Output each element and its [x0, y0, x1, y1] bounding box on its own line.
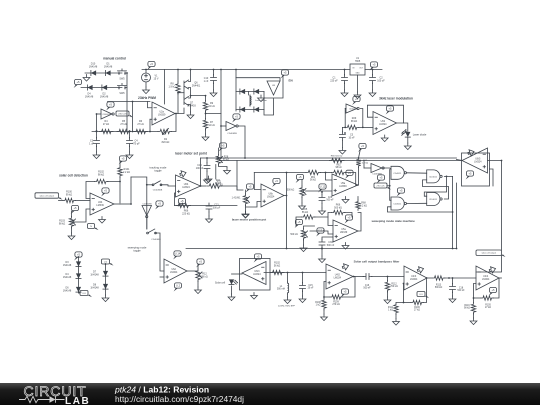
svg-text:56 kΩ: 56 kΩ [274, 264, 281, 267]
svg-text:27 kΩ: 27 kΩ [414, 310, 420, 312]
svg-text:C15: C15 [308, 285, 313, 287]
svg-text:2.2 kΩ: 2.2 kΩ [360, 204, 367, 207]
svg-text:LM324: LM324 [182, 186, 190, 189]
svg-text:15 V: 15 V [154, 77, 159, 80]
svg-text:R108: R108 [315, 302, 321, 304]
svg-text:Solar cell: Solar cell [215, 282, 226, 285]
svg-text:U.9: U.9 [419, 294, 423, 296]
svg-text:laser motor position pot: laser motor position pot [232, 218, 266, 222]
svg-text:1 uF: 1 uF [89, 142, 94, 145]
svg-text:470 pF: 470 pF [132, 142, 140, 145]
svg-text:98 kΩ: 98 kΩ [98, 173, 105, 176]
svg-text:U.2: U.2 [176, 284, 181, 288]
svg-text:CD4069B: CD4069B [227, 133, 237, 135]
svg-text:R105: R105 [485, 305, 491, 307]
svg-text:solar cell output: solar cell output [481, 251, 496, 254]
svg-text:CD4011: CD4011 [393, 173, 402, 175]
svg-text:820 kΩ: 820 kΩ [162, 141, 170, 144]
svg-text:98 kΩ: 98 kΩ [335, 167, 341, 169]
svg-text:+5: +5 [299, 175, 303, 179]
svg-text:R106: R106 [414, 307, 420, 309]
svg-text:23k CLK: 23k CLK [118, 113, 127, 115]
svg-text:1 kΩ: 1 kΩ [388, 310, 393, 312]
svg-text:1N4148: 1N4148 [90, 286, 99, 289]
svg-text:LM: LM [272, 85, 275, 87]
svg-text:+5: +5 [361, 144, 365, 148]
svg-text:+5: +5 [400, 189, 404, 193]
svg-text:99 kΩ: 99 kΩ [66, 193, 73, 196]
svg-text:1N4148: 1N4148 [63, 276, 72, 279]
svg-text:1.9 kΩ: 1.9 kΩ [169, 85, 176, 88]
svg-text:27 kΩ: 27 kΩ [120, 123, 127, 126]
svg-text:CD4011: CD4011 [429, 176, 438, 178]
svg-text:1 nF: 1 nF [204, 80, 209, 83]
svg-text:R112: R112 [391, 284, 397, 286]
svg-text:2.2 kΩ: 2.2 kΩ [362, 163, 369, 165]
svg-text:C26: C26 [328, 197, 333, 199]
svg-text:U.12: U.12 [320, 185, 326, 189]
svg-text:500 nF: 500 nF [327, 244, 335, 247]
svg-text:LM339: LM339 [158, 114, 166, 117]
svg-text:1N4148: 1N4148 [63, 264, 72, 267]
svg-text:LM324: LM324 [170, 271, 178, 274]
svg-text:sweeping mode state machine: sweeping mode state machine [372, 219, 416, 223]
svg-text:LM339: LM339 [96, 204, 104, 207]
svg-text:27 kΩ: 27 kΩ [485, 307, 491, 309]
svg-text:500 nF: 500 nF [363, 288, 371, 290]
svg-text:toggle: toggle [133, 249, 141, 253]
svg-text:IN: IN [353, 68, 355, 70]
svg-text:+5: +5 [348, 216, 352, 220]
svg-text:7805: 7805 [355, 60, 361, 63]
svg-text:2N4401: 2N4401 [192, 84, 201, 87]
svg-text:1 kΩ: 1 kΩ [316, 305, 321, 307]
svg-text:ptk24 / Lab12: Revision: ptk24 / Lab12: Revision [114, 385, 209, 395]
svg-text:500 kΩ: 500 kΩ [435, 287, 443, 289]
svg-text:C18: C18 [459, 288, 464, 290]
svg-text:LM339: LM339 [340, 231, 348, 234]
svg-text:CD4069B: CD4069B [102, 114, 111, 116]
svg-text:CD4069B: CD4069B [142, 204, 152, 206]
svg-text:+5: +5 [150, 62, 154, 66]
svg-text:laser motor set point: laser motor set point [175, 152, 207, 156]
svg-text:500 kΩ: 500 kΩ [290, 234, 298, 236]
svg-text:+5: +5 [284, 71, 288, 75]
svg-text:R113: R113 [436, 285, 442, 287]
svg-text:R116: R116 [464, 305, 470, 307]
svg-text:GND: GND [356, 73, 361, 75]
svg-text:1N4148: 1N4148 [104, 65, 113, 68]
svg-text:LAB: LAB [65, 396, 90, 405]
svg-text:LM339: LM339 [339, 185, 347, 188]
svg-text:98 kΩ: 98 kΩ [59, 222, 66, 225]
svg-text:U.8: U.8 [82, 293, 86, 295]
svg-text:500 µF: 500 µF [213, 206, 221, 209]
svg-text:2.2 kΩ: 2.2 kΩ [123, 171, 130, 174]
svg-text:220 uF: 220 uF [330, 79, 338, 82]
svg-text:+5: +5 [298, 220, 302, 224]
svg-text:LM324: LM324 [379, 123, 387, 126]
svg-text:+5: +5 [104, 189, 108, 193]
svg-text:500 nF: 500 nF [457, 290, 465, 292]
svg-text:R61: R61 [311, 177, 316, 179]
svg-text:U.2: U.2 [104, 261, 108, 263]
svg-text:100 nF: 100 nF [196, 167, 204, 170]
svg-text:L1: L1 [280, 286, 283, 288]
svg-text:+5: +5 [469, 172, 473, 176]
svg-text:R62: R62 [336, 165, 341, 167]
svg-text:+5: +5 [492, 288, 496, 292]
svg-text:+5: +5 [74, 206, 78, 210]
svg-text:+5: +5 [222, 144, 226, 148]
svg-text:Laser diode: Laser diode [413, 133, 427, 137]
svg-text:500 nF: 500 nF [326, 200, 334, 202]
svg-text:+5: +5 [380, 176, 384, 180]
svg-text:SW5: SW5 [119, 78, 125, 81]
svg-text:68 kΩ: 68 kΩ [351, 120, 358, 123]
svg-text:LM324: LM324 [410, 278, 418, 281]
svg-text:CD4069B: CD4069B [349, 109, 358, 111]
svg-text:+5: +5 [344, 290, 348, 294]
svg-text:Solar cell output bandpass fil: Solar cell output bandpass filter [354, 260, 401, 264]
svg-text:1N4148: 1N4148 [89, 65, 98, 68]
svg-text:CD4011: CD4011 [429, 199, 438, 201]
svg-text:1N4148: 1N4148 [63, 289, 72, 292]
svg-text:1N4148: 1N4148 [85, 95, 94, 98]
svg-text:98 kΩ: 98 kΩ [464, 308, 470, 310]
svg-text:1N4148: 1N4148 [100, 95, 109, 98]
svg-text:+5: +5 [235, 115, 239, 119]
svg-text:+5: +5 [389, 107, 393, 111]
svg-text:+5: +5 [158, 202, 162, 206]
svg-text:98 kΩ: 98 kΩ [201, 275, 208, 278]
svg-text:C16: C16 [365, 285, 370, 287]
svg-text:LM324: LM324 [474, 161, 482, 164]
svg-text:LM324: LM324 [482, 278, 490, 281]
svg-text:12 kΩ: 12 kΩ [208, 124, 215, 127]
svg-text:toggle: toggle [154, 169, 162, 173]
svg-text:EN: EN [289, 79, 293, 83]
svg-text:27k CLK: 27k CLK [377, 185, 386, 187]
svg-text:98 kΩ: 98 kΩ [215, 182, 222, 185]
svg-text:27 kΩ: 27 kΩ [103, 123, 110, 126]
svg-text:+5: +5 [199, 260, 203, 264]
svg-text:1N4148: 1N4148 [90, 273, 99, 276]
svg-text:CD4011: CD4011 [393, 204, 402, 206]
svg-text:100 uF: 100 uF [377, 79, 385, 82]
svg-text:N: N [90, 226, 92, 228]
svg-text:Laser Motor: Laser Motor [255, 99, 267, 102]
svg-text:+5: +5 [122, 157, 126, 161]
svg-text:220 kΩ: 220 kΩ [182, 212, 190, 215]
svg-text:solar cell detection: solar cell detection [59, 174, 88, 178]
svg-text:SW6: SW6 [119, 92, 125, 95]
svg-text:OUT: OUT [359, 68, 364, 70]
svg-text:10 nF: 10 nF [348, 136, 355, 139]
svg-text:56 kΩ: 56 kΩ [310, 180, 316, 182]
svg-text:+5: +5 [181, 199, 185, 203]
svg-text:+5: +5 [109, 103, 113, 107]
svg-text:3kHz laser modulation: 3kHz laser modulation [379, 97, 413, 101]
svg-text:224Hz-7kHz BPF: 224Hz-7kHz BPF [278, 306, 296, 308]
svg-text:LM324: LM324 [334, 277, 342, 280]
svg-text:56 kΩ: 56 kΩ [302, 211, 309, 214]
svg-text:270 kΩ: 270 kΩ [332, 304, 340, 306]
svg-text:23kHz PWM: 23kHz PWM [138, 96, 156, 100]
svg-text:R66 500 kΩ: R66 500 kΩ [331, 156, 343, 158]
svg-text:manual control: manual control [103, 57, 126, 61]
svg-text:solar cell output: solar cell output [39, 194, 54, 197]
svg-text:http://circuitlab.com/c9pzk7r2: http://circuitlab.com/c9pzk7r2474dj [115, 394, 244, 404]
svg-text:LM324: LM324 [253, 273, 261, 276]
svg-text:22 kΩ: 22 kΩ [208, 105, 215, 108]
svg-text:500 mH: 500 mH [277, 289, 285, 291]
svg-text:27 kΩ: 27 kΩ [137, 123, 144, 126]
svg-text:500 kΩ: 500 kΩ [334, 206, 342, 209]
svg-text:500 kΩ: 500 kΩ [287, 190, 295, 192]
svg-text:+5: +5 [77, 80, 81, 84]
svg-text:U.14: U.14 [175, 252, 181, 256]
svg-text:R111: R111 [388, 307, 394, 309]
svg-text:20 nF: 20 nF [308, 288, 314, 290]
svg-text:+5: +5 [257, 255, 261, 259]
svg-text:CD4066B: CD4066B [153, 190, 163, 192]
svg-text:+5: +5 [77, 253, 81, 257]
svg-text:+5: +5 [373, 63, 377, 67]
svg-text:700 kΩ: 700 kΩ [390, 286, 398, 288]
svg-text:LM324: LM324 [267, 196, 275, 199]
svg-text:+5: +5 [249, 185, 253, 189]
svg-text:1.4Ω M1: 1.4Ω M1 [232, 198, 241, 200]
svg-text:+5: +5 [275, 179, 279, 183]
svg-text:R109: R109 [333, 302, 339, 304]
